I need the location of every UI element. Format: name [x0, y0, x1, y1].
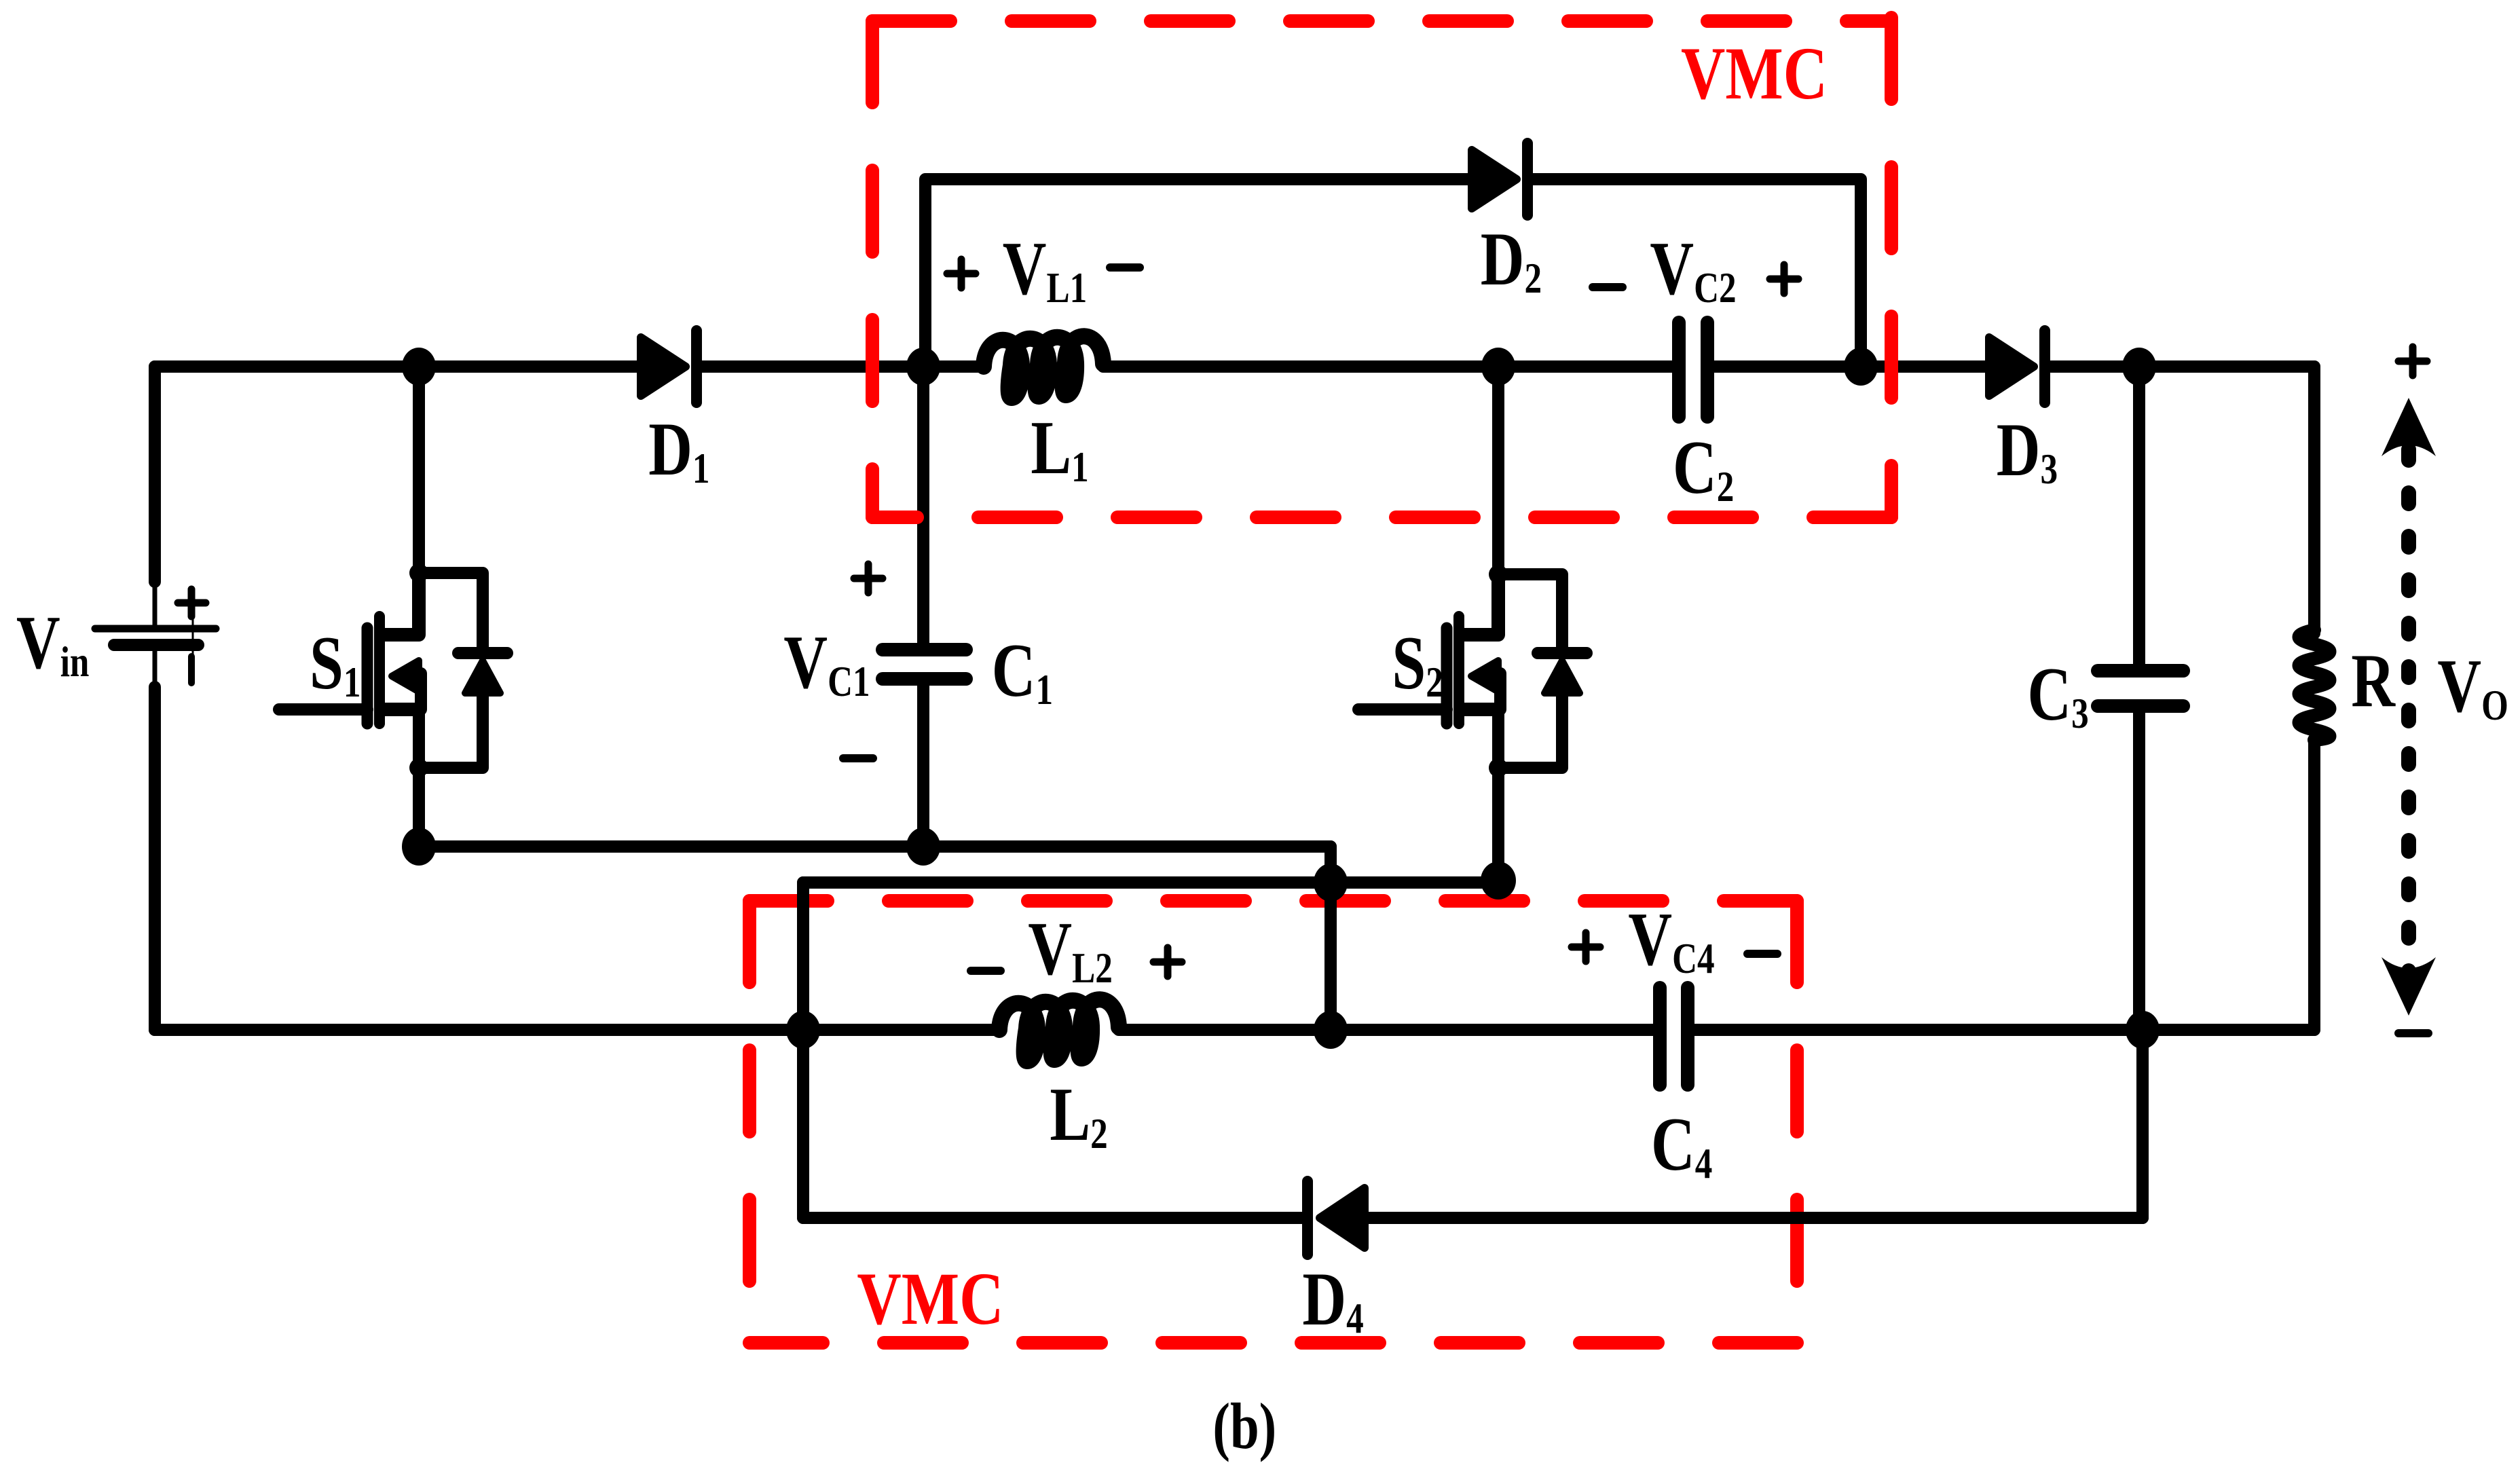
- battery Vin minus tick: [188, 656, 195, 683]
- transistor S1 body diode bottom leg: [419, 697, 483, 768]
- svg-text:D2: D2: [1481, 217, 1542, 303]
- Vo minus sign: [2398, 1029, 2428, 1037]
- node top rail at D3/C3: [2122, 348, 2156, 386]
- svg-text:VMC: VMC: [857, 1257, 1003, 1341]
- VMC box bottom bottom edge: [749, 1336, 1797, 1350]
- svg-text:VC1: VC1: [783, 620, 870, 706]
- capacitor C1 top plate: [883, 643, 966, 656]
- transistor S2 arrow-to-source stub: [1494, 673, 1506, 709]
- wire C3 top lead: [2133, 367, 2145, 665]
- node S2 source on rail B: [1481, 861, 1516, 900]
- wire step vertical rail A to L2 right node: [1324, 847, 1337, 1030]
- transistor S1 source contact jog: [385, 703, 419, 716]
- label VC1 minus sign: [843, 754, 873, 762]
- label VC2 plus sign: [1770, 265, 1798, 293]
- wire left vertical rail B corner down to D4 rail: [797, 883, 809, 1218]
- capacitor C4 right plate: [1681, 988, 1694, 1085]
- transistor S1 gate lead: [279, 703, 367, 716]
- transistor S2 body diode triangle: [1544, 661, 1580, 693]
- label VL2 plus sign: [1153, 948, 1182, 976]
- battery Vin short plate: [114, 639, 198, 651]
- transistor S1 channel bar: [374, 616, 385, 724]
- transistor S1 gate bar: [362, 628, 373, 724]
- battery Vin plus sign: [178, 589, 206, 616]
- capacitor C3 top plate: [2098, 664, 2183, 678]
- transistor S1 body diode triangle: [465, 661, 500, 693]
- wire top rail D3 cathode to R top corner: [2051, 360, 2314, 373]
- battery Vin hairline: [192, 615, 194, 658]
- wire rail B from left corner to S2 source: [803, 876, 1498, 889]
- node top rail at S2 drain: [1481, 348, 1515, 386]
- resistor R zigzag: [2299, 630, 2330, 740]
- wire C1 bottom lead: [917, 686, 929, 847]
- transistor S2 body diode bottom leg: [1498, 697, 1562, 768]
- node bottom rail at L2 right: [1314, 1011, 1348, 1049]
- diode D1 triangle: [641, 337, 686, 396]
- node rail A step on rail B: [1314, 864, 1348, 902]
- svg-text:VMC: VMC: [1681, 32, 1828, 115]
- label VL2 minus sign: [971, 967, 1001, 975]
- diode D2 triangle: [1472, 150, 1517, 208]
- label VC4 plus sign: [1572, 933, 1600, 961]
- VMC box bottom left edge: [743, 901, 756, 1343]
- capacitor C2 right plate: [1701, 322, 1714, 417]
- node top rail at L1/C1/D2: [906, 348, 940, 386]
- wire S2 drain vertical: [1492, 367, 1504, 574]
- svg-text:VL2: VL2: [1028, 907, 1112, 993]
- wire S2 source vertical to rail B node: [1492, 709, 1504, 881]
- node S1 source rail A: [402, 828, 436, 866]
- wire bottom rail Vin- to L2 left: [155, 1024, 999, 1036]
- node top rail at C2/D2 return: [1844, 348, 1878, 386]
- wire right vertical output node down to D4 rail: [2136, 1030, 2149, 1218]
- svg-text:D4: D4: [1302, 1257, 1363, 1343]
- wire bottom rail C4 right plate to R bottom corner: [1694, 1024, 2314, 1036]
- svg-text:(b): (b): [1212, 1390, 1276, 1462]
- svg-text:VC4: VC4: [1628, 897, 1714, 983]
- wire D2 branch left riser and top run: [925, 179, 1468, 367]
- diode D2 cathode bar: [1522, 143, 1533, 215]
- wire top rail D1 cathode to L1 left: [702, 360, 984, 373]
- transistor S1 drain contact jog: [385, 573, 419, 635]
- label VC4 minus sign: [1747, 950, 1777, 958]
- wire R top lead: [2308, 367, 2320, 633]
- node bottom rail output: [2126, 1011, 2160, 1049]
- svg-text:L1: L1: [1031, 406, 1088, 492]
- wire top rail Vin+ to D1 anode: [155, 360, 637, 373]
- wire top rail L1 right to C2 left plate: [1103, 360, 1672, 373]
- wire left vertical Vin+ lead: [149, 367, 161, 582]
- node S2 drain split: [1489, 565, 1508, 584]
- wire R bottom lead: [2308, 740, 2320, 1030]
- transistor S1 body diode top jog: [419, 573, 483, 650]
- VMC box top right edge: [1885, 18, 1898, 517]
- svg-text:VL1: VL1: [1003, 227, 1087, 312]
- inductor L1 coil: [984, 336, 1103, 398]
- diode D3 cathode bar: [2039, 331, 2050, 403]
- diode D3 triangle: [1989, 337, 2034, 396]
- wire bottom rail L2 right to C4 left plate: [1119, 1024, 1653, 1036]
- label VL1 plus sign: [947, 259, 976, 288]
- svg-text:S2: S2: [1392, 621, 1443, 707]
- VMC box bottom right edge: [1790, 901, 1804, 1343]
- wire left vertical Vin- lead: [149, 687, 161, 1030]
- VMC box bottom top edge: [749, 894, 1797, 908]
- svg-text:C2: C2: [1673, 426, 1734, 511]
- wire S1 drain vertical: [413, 367, 425, 573]
- wire C3 bottom lead: [2133, 712, 2145, 1030]
- wire C1 top lead: [917, 367, 929, 643]
- transistor S2 source contact jog: [1464, 703, 1498, 716]
- svg-text:C1: C1: [992, 629, 1053, 714]
- transistor S2 body diode top jog: [1498, 574, 1562, 650]
- capacitor C2 left plate: [1672, 322, 1686, 417]
- VMC box top left edge: [866, 21, 879, 517]
- svg-text:VC2: VC2: [1650, 227, 1736, 312]
- label VL1 minus sign: [1110, 263, 1140, 272]
- Vo plus sign: [2398, 347, 2427, 375]
- wire rail A from S1 source to step: [419, 840, 1331, 853]
- node C1 bottom on rail A: [906, 828, 940, 866]
- transistor S2 channel bar: [1453, 616, 1464, 724]
- diode D4 cathode bar: [1302, 1181, 1313, 1255]
- transistor S1 body diode cathode bar: [458, 647, 507, 659]
- node top rail at S1 drain: [402, 348, 436, 386]
- capacitor C1 bottom plate: [883, 672, 966, 686]
- svg-text:Vin: Vin: [16, 601, 89, 686]
- svg-text:S1: S1: [310, 621, 360, 707]
- capacitor C3 bottom plate: [2098, 699, 2183, 713]
- transistor S1 substrate arrow: [392, 661, 419, 692]
- VMC box top bottom edge: [872, 511, 1891, 524]
- diode D1 cathode bar: [691, 331, 702, 403]
- wire S1 source vertical to node: [413, 709, 425, 847]
- battery Vin bottom thin lead: [153, 651, 157, 688]
- battery Vin long plate: [95, 625, 216, 633]
- wire D4 rail cathode side: [803, 1212, 1301, 1224]
- capacitor C4 left plate: [1653, 988, 1667, 1085]
- transistor S2 drain contact jog: [1464, 574, 1498, 635]
- Vo arrow down: [2382, 957, 2436, 1016]
- node S1 drain split: [409, 563, 428, 582]
- transistor S2 body diode cathode bar: [1538, 647, 1587, 659]
- Vo dashed measurement line: [2401, 449, 2416, 986]
- wire D4 rail anode side: [1369, 1212, 2143, 1224]
- svg-text:VO: VO: [2437, 644, 2508, 730]
- wire D2 branch top run right and right riser: [1533, 179, 1861, 367]
- battery Vin top thin lead: [153, 580, 157, 625]
- svg-text:C3: C3: [2027, 652, 2088, 738]
- svg-text:D3: D3: [1997, 408, 2058, 494]
- transistor S2 gate lead: [1358, 703, 1447, 716]
- inductor L2 coil: [999, 999, 1119, 1061]
- node S1 source split: [409, 758, 428, 777]
- Vo arrow up: [2382, 398, 2436, 456]
- svg-text:L2: L2: [1050, 1073, 1107, 1158]
- label VC1 plus sign: [854, 564, 883, 593]
- transistor S1 arrow-to-source stub: [415, 673, 427, 709]
- node S2 source split: [1489, 758, 1508, 777]
- transistor S2 gate bar: [1441, 628, 1453, 724]
- wire top rail C2 right plate to D3 anode: [1714, 360, 1985, 373]
- svg-text:C4: C4: [1651, 1102, 1712, 1188]
- transistor S2 substrate arrow: [1471, 661, 1498, 692]
- label VC2 minus sign: [1593, 283, 1623, 291]
- VMC box top top edge: [872, 14, 1891, 28]
- diode D4 triangle: [1320, 1188, 1365, 1248]
- svg-text:D1: D1: [648, 407, 709, 493]
- node bottom rail at L2 left: [786, 1011, 820, 1049]
- svg-text:R: R: [2351, 639, 2396, 723]
